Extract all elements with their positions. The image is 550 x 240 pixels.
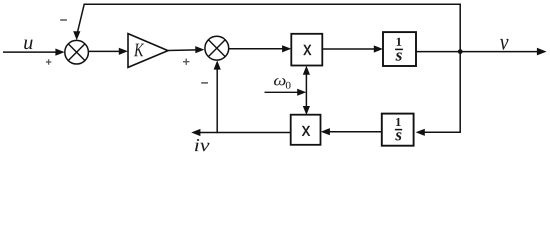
label x top xyxy=(304,45,312,55)
wire: slanted drop into summing junction S1 xyxy=(77,4,84,32)
label omega subscript 0 xyxy=(286,82,291,89)
fraction bar top xyxy=(395,48,403,50)
wire: S1 to gain K xyxy=(89,50,121,52)
wire: M1 to integrator I1 xyxy=(322,48,376,50)
summing junction S2 xyxy=(205,36,229,60)
arrowhead into I1 left xyxy=(374,45,383,52)
arrowhead into K left edge xyxy=(119,48,128,55)
label: plus sign at S1 xyxy=(46,59,51,64)
label 1 bottom xyxy=(396,118,401,126)
label u xyxy=(24,40,32,50)
node: junction dot on output line xyxy=(458,49,463,54)
arrowhead up into S2 bottom xyxy=(214,60,221,69)
label s bottom xyxy=(395,132,401,140)
arrowhead into S1 left xyxy=(55,49,64,56)
label iv xyxy=(195,139,209,151)
wire: input u line xyxy=(3,51,57,53)
wire: right feedback vertical xyxy=(459,4,461,133)
wire: S2 to multiplier M1 xyxy=(229,48,284,50)
wire: riser from bottom line up to S2 xyxy=(216,68,218,133)
label x bottom xyxy=(302,126,310,136)
wire: bottom right horizontal into I2 xyxy=(423,131,460,133)
gain K triangle xyxy=(128,34,168,68)
label v xyxy=(500,39,509,50)
wire: I2 to multiplier M2 xyxy=(329,131,382,133)
wire: omega0 horizontal line xyxy=(265,91,300,93)
wire: omega0 vertical double arrow xyxy=(305,71,307,110)
summing junction S1 xyxy=(65,40,89,64)
label 1 top xyxy=(397,38,402,46)
wire: K to summing junction S2 xyxy=(168,49,197,52)
multiplier M2 bottom x block xyxy=(291,115,321,145)
arrowhead into S2 left xyxy=(195,46,204,53)
arrowhead omega0 into vertical xyxy=(297,89,306,96)
label omega xyxy=(274,78,286,85)
arrowhead down into M2 top xyxy=(303,106,310,115)
wire: output line to v xyxy=(416,51,538,53)
arrowhead into M1 left xyxy=(282,45,291,52)
arrowhead into M2 right xyxy=(321,128,330,135)
arrowhead up into M1 bottom xyxy=(303,66,310,75)
wire: top feedback horizontal xyxy=(84,3,461,5)
arrowhead output v xyxy=(537,48,547,56)
label: minus sign left of riser at S2 xyxy=(201,82,208,84)
arrowhead into I2 right xyxy=(416,129,425,136)
label: minus sign above S1 xyxy=(60,19,67,21)
label: plus sign at S2 xyxy=(183,59,189,65)
label s top xyxy=(395,53,401,61)
arrowhead left end at iv xyxy=(191,129,200,136)
integrator I1 top 1/s block xyxy=(383,32,416,66)
label K xyxy=(134,44,144,57)
wire: bottom line from M2 to iv arrow xyxy=(199,132,291,134)
arrowhead down into S1 top xyxy=(73,31,80,40)
integrator I2 bottom 1/s block xyxy=(382,114,414,146)
multiplier M1 top x block xyxy=(291,34,322,66)
fraction bar bottom xyxy=(395,129,402,131)
